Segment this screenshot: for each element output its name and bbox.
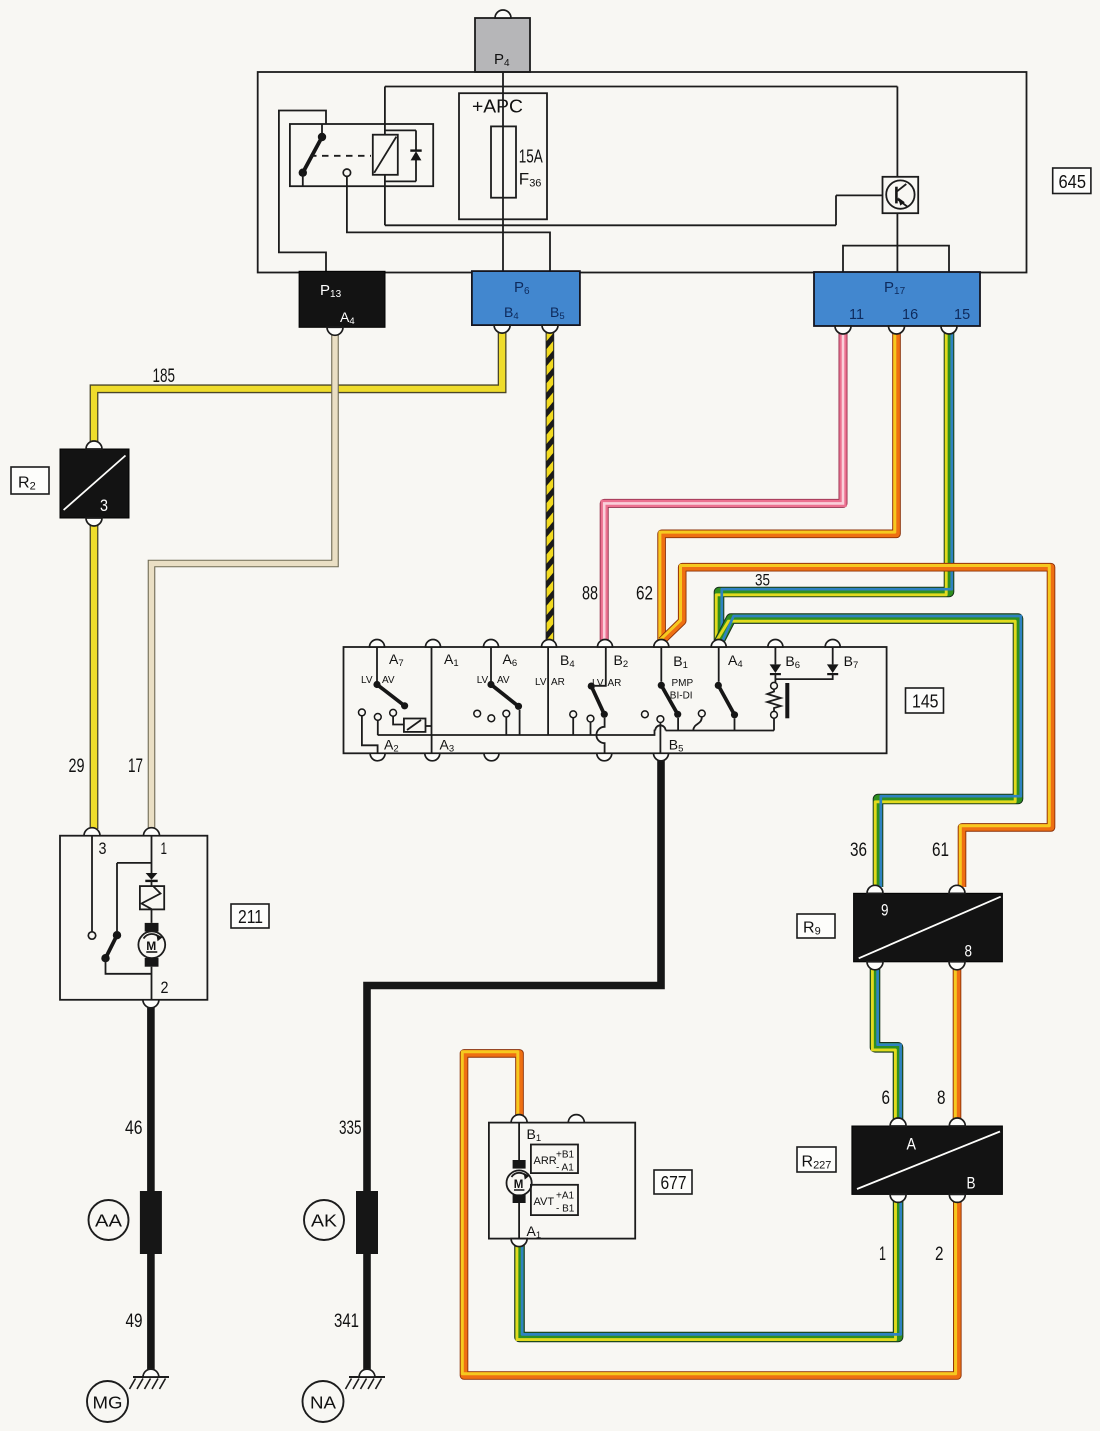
box 145 xyxy=(344,647,887,753)
svg-text:M: M xyxy=(514,1179,524,1191)
wire 6 tri-stripe: R9-9 to R227-A xyxy=(872,968,900,1120)
svg-text:185: 185 xyxy=(153,366,176,387)
svg-text:36: 36 xyxy=(850,840,867,861)
wire 46-49 black ground wire from 211-2 xyxy=(147,1006,155,1369)
washer pump 211 xyxy=(60,828,207,1008)
splice block on wire 335 xyxy=(356,1191,378,1254)
svg-text:88: 88 xyxy=(582,584,598,605)
wire 36 tri-stripe: 145-A4 to R9-9 xyxy=(716,616,1020,887)
svg-text:46: 46 xyxy=(125,1118,143,1139)
svg-text:211: 211 xyxy=(238,907,263,927)
svg-text:35: 35 xyxy=(755,572,770,590)
svg-text:B: B xyxy=(967,1174,976,1193)
svg-text:AR: AR xyxy=(551,677,565,688)
svg-text:ARR: ARR xyxy=(534,1155,557,1167)
connector P17 xyxy=(814,272,980,334)
211 pin1 lead xyxy=(151,836,153,873)
wire coil to rails xyxy=(384,87,386,226)
svg-text:MG: MG xyxy=(93,1393,123,1413)
svg-text:61: 61 xyxy=(932,840,949,861)
ground name NA xyxy=(303,1381,344,1422)
svg-text:BI-DI: BI-DI xyxy=(670,691,693,702)
svg-text:49: 49 xyxy=(126,1311,143,1332)
ground name MG xyxy=(87,1381,128,1422)
wire 185 yellow: P6-B4 to R2 xyxy=(94,331,502,443)
connector P6 xyxy=(472,271,580,333)
diode B6 xyxy=(770,647,782,682)
svg-text:8: 8 xyxy=(965,942,973,961)
rear wiper motor 677 xyxy=(489,1115,635,1247)
relay switch contact xyxy=(299,124,327,186)
svg-text:9: 9 xyxy=(881,901,889,920)
svg-text:677: 677 xyxy=(661,1173,687,1193)
svg-text:3: 3 xyxy=(99,839,107,858)
211 pin3 lead and open contact xyxy=(88,836,95,940)
switch A6 (LV AV) xyxy=(487,647,522,735)
node: top rail inside 645 xyxy=(385,86,898,88)
wire 29 yellow: R2 to 211 pin3 xyxy=(90,524,99,829)
svg-text:A: A xyxy=(907,1135,917,1154)
145 top terminal domes xyxy=(370,640,841,648)
svg-text:15A: 15A xyxy=(519,147,543,167)
svg-text:AK: AK xyxy=(311,1211,337,1231)
splice R2 xyxy=(60,441,129,526)
svg-text:11: 11 xyxy=(849,307,864,323)
svg-text:15: 15 xyxy=(954,307,970,323)
splice R227 xyxy=(852,1118,1003,1202)
svg-text:335: 335 xyxy=(339,1118,362,1139)
connector P13 xyxy=(299,271,385,335)
label 145 xyxy=(906,688,944,713)
splice R9 xyxy=(854,885,1003,970)
wire yellow-black striped: P6-B5 to 145-B4 xyxy=(546,333,554,640)
svg-text:17: 17 xyxy=(128,756,143,777)
svg-text:M: M xyxy=(146,939,156,953)
ground NA symbol xyxy=(346,1369,386,1389)
wire 62 orange: P17-16 to 145-B1 xyxy=(660,333,897,640)
211 diode xyxy=(145,873,157,886)
relay NO contact to P6-B5 xyxy=(343,169,550,271)
B1 contacts and B5 lead xyxy=(642,711,664,753)
ground MG symbol xyxy=(130,1369,170,1389)
211 motor M xyxy=(138,909,165,999)
rheostat with thermal bar xyxy=(767,682,789,730)
svg-text:+B1: +B1 xyxy=(556,1150,575,1161)
switch B1 (PMP BI-DI pump) xyxy=(658,647,682,731)
svg-text:+A1: +A1 xyxy=(556,1191,575,1202)
svg-text:- B1: - B1 xyxy=(556,1204,575,1215)
svg-text:- A1: - A1 xyxy=(556,1163,574,1174)
svg-text:AA: AA xyxy=(95,1211,122,1231)
svg-text:6: 6 xyxy=(882,1088,891,1109)
switch B2 (LV AR rear washer) xyxy=(588,647,608,753)
switch A4 xyxy=(715,647,738,731)
svg-text:LV: LV xyxy=(535,677,547,688)
label R227 xyxy=(797,1147,836,1172)
svg-text:LV: LV xyxy=(477,675,489,686)
svg-text:341: 341 xyxy=(334,1311,359,1332)
A7 contacts xyxy=(359,709,404,753)
A6 contacts xyxy=(474,710,510,735)
label R9 xyxy=(797,914,835,938)
svg-text:AV: AV xyxy=(497,675,510,686)
fuse F36 15A xyxy=(491,72,543,271)
svg-text:2: 2 xyxy=(935,1244,944,1265)
connector P4 xyxy=(475,10,530,72)
145 function labels xyxy=(361,675,694,702)
label 211 xyxy=(231,904,269,928)
wire 61 orange: 145-B1 to R9-8 xyxy=(660,566,1051,888)
svg-text:AR: AR xyxy=(608,678,622,689)
svg-text:PMP: PMP xyxy=(672,678,694,689)
wire 2 orange loop: R227-B to 677-B1 xyxy=(462,1052,957,1376)
211 pump valve box xyxy=(140,886,164,909)
211 internal switch xyxy=(101,863,151,974)
svg-text:1: 1 xyxy=(161,839,168,858)
145 inner bus line xyxy=(378,731,774,736)
wire 1 tri-stripe: R227-A to 677-A1 xyxy=(517,1200,901,1340)
svg-text:62: 62 xyxy=(636,584,653,605)
wire 35 green tri-stripe: P17-15 to 145-A4 xyxy=(716,333,952,640)
svg-text:+APC: +APC xyxy=(472,97,523,117)
svg-text:NA: NA xyxy=(310,1393,336,1413)
svg-text:LV: LV xyxy=(361,675,373,686)
svg-text:AV: AV xyxy=(382,675,395,686)
node: bottom rail inside 645 xyxy=(385,224,836,226)
677 ARR direction box xyxy=(531,1145,578,1174)
svg-text:145: 145 xyxy=(912,692,939,712)
wire 8 orange: R9-8 to R227-B xyxy=(955,968,957,1120)
transistor Q1 timer xyxy=(836,87,918,273)
label R2 xyxy=(11,467,49,494)
box 645 outer frame xyxy=(258,72,1027,273)
switch A7 (LV AV front washer) xyxy=(373,647,408,709)
wire 335-341 black ground wire from 145-B5 xyxy=(367,759,661,1369)
677 motor M xyxy=(506,1123,531,1239)
svg-text:16: 16 xyxy=(902,307,918,323)
677 AVT direction box xyxy=(531,1185,578,1215)
145 bottom terminal domes xyxy=(370,753,668,761)
svg-text:2: 2 xyxy=(161,978,169,997)
svg-text:3: 3 xyxy=(100,496,108,515)
label 645 xyxy=(1053,168,1091,194)
timer resistor box in A7 cell xyxy=(404,719,432,732)
diode B7 xyxy=(775,647,838,679)
wire 17 beige: P13-A4 to 211 pin1 xyxy=(152,334,336,829)
145 partitions xyxy=(432,647,549,753)
relay K box xyxy=(290,124,433,186)
hop of bus over B5 lead xyxy=(655,725,665,730)
splice name AK xyxy=(304,1200,344,1240)
145 bottom labels A2 A3 B5 xyxy=(384,737,683,755)
svg-text:29: 29 xyxy=(69,756,85,777)
wire relay pivot to P13 loop xyxy=(279,111,326,272)
svg-text:AVT: AVT xyxy=(534,1196,555,1208)
splice name AA xyxy=(89,1200,129,1240)
relay actuation dashed line xyxy=(310,155,371,157)
diode D1 across coil xyxy=(385,130,422,181)
label 677 xyxy=(654,1170,692,1194)
svg-text:645: 645 xyxy=(1059,172,1087,192)
wire 88 pink: P17-11 to 145-B2 xyxy=(604,333,843,640)
fuse box +APC xyxy=(459,93,547,219)
relay coil xyxy=(373,135,398,175)
145 terminal labels top xyxy=(389,651,858,671)
svg-text:1: 1 xyxy=(879,1244,886,1265)
A4 open contact xyxy=(693,710,705,730)
bracket joining P17 pins 11 and 15 xyxy=(843,246,949,272)
splice block on wire 46 xyxy=(140,1191,162,1254)
B2 contacts xyxy=(570,711,594,735)
svg-text:8: 8 xyxy=(937,1088,946,1109)
